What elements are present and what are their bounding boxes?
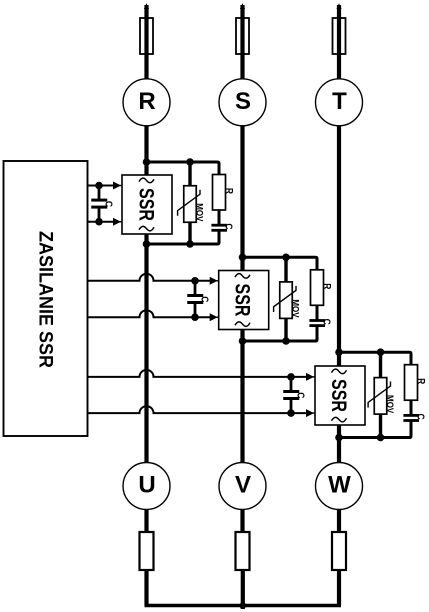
wire: MOV RV1 top lead (188, 162, 191, 187)
wire: U fuse to star point bus (144, 570, 148, 605)
svg-text:C: C (295, 392, 306, 398)
SSR U1 AC mark (bottom tilde) (139, 226, 154, 231)
arrowhead into SSR1 control input 2 (113, 218, 121, 226)
wire: SSR U1 AC terminal 2 to bottom node (144, 233, 148, 244)
capacitor C1 (snubber) plate 1 (211, 224, 227, 227)
svg-text:SSR: SSR (134, 188, 158, 221)
wire: U circle to fuse F4 (144, 509, 148, 533)
supply terminal tip phase S (240, 3, 245, 9)
svg-text:R: R (322, 283, 333, 289)
wire: top rail node R to snubber branch (147, 162, 220, 176)
capacitor C6 plate 2 (283, 397, 299, 400)
node: control line 3 upper / cap junction (287, 373, 295, 381)
wire: MOV RV2 top lead (284, 257, 287, 283)
wire: R1 to C1 snubber (218, 210, 221, 224)
arrowhead into SSR2 control input 2 (210, 313, 218, 321)
node: bottom rail / phase T junction (335, 434, 343, 442)
arrowhead into SSR3 control input 2 (306, 409, 314, 417)
node: control line 1 upper / cap junction (95, 182, 103, 190)
wire: bottom rail node R to snubber branch (147, 231, 220, 244)
wire: SSR2 control line 2 from ZASILANIE SSR (88, 310, 212, 317)
node: bottom rail / MOV junction (186, 240, 194, 248)
arrowhead into SSR1 control input 1 (113, 182, 121, 190)
svg-text:SSR: SSR (230, 284, 254, 317)
wire: top rail node T to snubber branch (339, 352, 411, 366)
wire: SSR3 control line 1 from ZASILANIE SSR (88, 370, 309, 377)
wire: R circle to SSR branch top node (144, 125, 148, 162)
svg-text:C: C (415, 414, 426, 420)
load circle V (219, 463, 266, 510)
source circle S (219, 79, 266, 126)
SSR relay U2 body (219, 271, 269, 330)
wire: MOV RV2 bottom lead (284, 317, 287, 341)
wire: supply T down to source circle (337, 5, 341, 80)
svg-text:MOV: MOV (290, 299, 301, 317)
wire: supply R down to source circle (144, 5, 148, 80)
node: control line 3 lower / cap junction (287, 409, 295, 417)
capacitor C2 (snubber) plate 1 (309, 319, 325, 322)
svg-text:S: S (235, 88, 251, 115)
node: top rail / MOV junction (377, 348, 385, 356)
fuse F4 (bottom, phase U) (140, 532, 154, 570)
wire: top node into SSR U1 AC terminal 1 (144, 162, 148, 176)
capacitor C3 (snubber) plate 1 (403, 414, 419, 417)
fuse F6 (bottom, phase W) (332, 532, 346, 570)
capacitor C1 (snubber) plate 2 (211, 229, 227, 232)
resistor R1 (snubber) (213, 175, 226, 211)
wire: top node into SSR U3 AC terminal 1 (337, 352, 341, 367)
varistor RV1 diagonal stroke (178, 190, 200, 216)
wire: R2 to C2 snubber (316, 305, 319, 319)
wire: supply S down to source circle (240, 5, 244, 80)
svg-text:V: V (235, 472, 251, 499)
SSR U1 AC mark (top tilde) (139, 178, 154, 183)
arrowhead into SSR3 control input 1 (306, 373, 314, 381)
varistor RV2 (MOV) body (280, 282, 293, 319)
capacitor C4 (control filter) top lead (98, 186, 101, 199)
svg-text:C: C (321, 319, 332, 325)
wire: T circle to SSR branch top node (337, 125, 341, 352)
fuse F3 (top, phase T) (333, 18, 346, 54)
varistor RV3 (MOV) body (374, 378, 387, 415)
wire: MOV RV1 bottom lead (188, 221, 191, 244)
capacitor C5 (control filter) top lead (194, 281, 197, 295)
wire: S circle to SSR branch top node (240, 125, 244, 257)
node: top rail / phase R junction (143, 158, 151, 166)
svg-text:ZASILANIE SSR: ZASILANIE SSR (34, 231, 56, 368)
svg-text:U: U (138, 472, 155, 499)
wire: bottom rail node S to snubber branch (243, 327, 318, 341)
capacitor C2 (snubber) plate 2 (309, 324, 325, 327)
svg-text:R: R (138, 88, 155, 115)
wire: top rail node S to snubber branch (243, 257, 318, 271)
node: control line 2 upper / cap junction (191, 277, 199, 285)
wire: MOV RV3 bottom lead (379, 413, 382, 437)
capacitor C4 plate 1 (91, 199, 107, 202)
wire: bottom node down to load circle V (240, 341, 244, 463)
wire: W circle to fuse F6 (337, 509, 341, 533)
fuse F5 (bottom, phase V) (236, 532, 250, 570)
wire: SSR U2 AC terminal 2 to bottom node (240, 329, 244, 342)
wire: SSR2 control line 1 from ZASILANIE SSR (88, 274, 212, 281)
svg-text:C: C (223, 223, 234, 229)
wire: bottom node down to load circle U (144, 244, 148, 463)
varistor RV3 diagonal stroke (368, 382, 390, 408)
capacitor C6 bottom lead (290, 400, 293, 413)
arrowhead into SSR2 control input 1 (210, 277, 218, 285)
capacitor C3 (snubber) plate 2 (403, 419, 419, 422)
node: bottom rail / phase S junction (239, 337, 247, 345)
capacitor C5 plate 1 (187, 294, 203, 297)
fuse F1 (top, phase R) (140, 18, 153, 54)
svg-text:MOV: MOV (385, 395, 396, 413)
wire: V circle to fuse F5 (240, 509, 244, 533)
SSR U3 AC mark (top tilde) (332, 369, 347, 374)
svg-text:R: R (416, 378, 427, 384)
node: top rail / phase T junction (335, 348, 343, 356)
svg-text:T: T (332, 88, 347, 115)
node: bottom rail / MOV junction (377, 434, 385, 442)
wire: W fuse to star point bus (337, 570, 341, 605)
SSR relay U3 body (315, 366, 365, 425)
capacitor C6 (control filter) top lead (290, 377, 293, 390)
capacitor C5 plate 2 (187, 301, 203, 304)
node: star point junction at V (240, 602, 247, 609)
node: top rail / MOV junction (282, 253, 290, 261)
svg-text:W: W (328, 472, 351, 499)
power supply block: ZASILANIE SSR (4, 161, 88, 436)
node: top rail / phase S junction (239, 253, 247, 261)
wire: star point bus (145, 604, 342, 607)
node: top rail / MOV junction (186, 158, 194, 166)
node: control line 1 lower / cap junction (95, 218, 103, 226)
node: bottom rail / MOV junction (282, 337, 290, 345)
varistor RV1 (MOV) body (184, 186, 197, 223)
wire: SSR3 control line 2 from ZASILANIE SSR (88, 406, 309, 413)
varistor RV2 diagonal stroke (274, 286, 296, 312)
svg-text:R: R (224, 188, 235, 194)
load circle U (123, 463, 170, 510)
capacitor C4 bottom lead (98, 208, 101, 221)
capacitor C5 bottom lead (194, 304, 197, 318)
svg-text:C: C (103, 201, 114, 207)
SSR U2 AC mark (bottom tilde) (235, 322, 250, 327)
fuse F2 (top, phase S) (236, 18, 249, 54)
wire: SSR U3 AC terminal 2 to bottom node (337, 424, 341, 438)
SSR U3 AC mark (bottom tilde) (332, 417, 347, 422)
svg-text:SSR: SSR (327, 379, 351, 412)
wire: SSR1 control line 2 from ZASILANIE SSR (88, 221, 116, 223)
wire: bottom node down to load circle W (337, 438, 341, 464)
SSR relay U1 body (122, 175, 172, 234)
capacitor C6 plate 1 (283, 390, 299, 393)
wire: SSR1 control line 1 from ZASILANIE SSR (88, 185, 116, 187)
supply terminal tip phase R (144, 3, 149, 9)
source circle T (316, 79, 363, 126)
capacitor C4 plate 2 (91, 206, 107, 209)
node: bottom rail / phase R junction (143, 240, 151, 248)
wire: MOV RV3 top lead (379, 352, 382, 378)
wire: bottom rail node T to snubber branch (339, 422, 411, 438)
node: control line 2 lower / cap junction (191, 313, 199, 321)
wire: top node into SSR U2 AC terminal 1 (240, 257, 244, 271)
source circle R (123, 79, 170, 126)
wire: V fuse to star point bus (241, 570, 245, 609)
svg-text:MOV: MOV (194, 203, 205, 221)
svg-text:C: C (199, 296, 210, 302)
load circle W (316, 463, 363, 510)
wire: R3 to C3 snubber (410, 400, 413, 414)
supply terminal tip phase T (336, 3, 341, 9)
resistor R2 (snubber) (311, 270, 324, 306)
SSR U2 AC mark (top tilde) (235, 274, 250, 279)
resistor R3 (snubber) (405, 365, 418, 401)
